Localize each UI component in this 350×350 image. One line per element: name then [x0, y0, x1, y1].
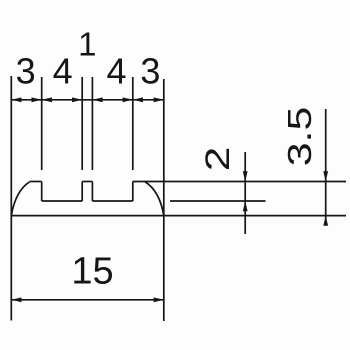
arrowhead dim4a right, pointing right [72, 97, 82, 102]
arrowhead dim2 bottom, pointing up [243, 201, 248, 211]
profile bottom + right extension line [11, 215, 346, 217]
extension line 4 (x=92.4) [91, 77, 93, 170]
profile top surface right segment + right extension line [133, 181, 346, 183]
extension line 5 (x=132.8) [132, 77, 134, 170]
arrowhead dim15 left [11, 297, 21, 302]
arrowhead dim3b right, pointing right [154, 97, 164, 102]
arrowhead dim15 right [154, 297, 164, 302]
svg-text:4: 4 [106, 50, 126, 91]
profile top surface left segment [29, 181, 41, 183]
right rounded corner [145, 182, 164, 216]
svg-text:3: 3 [140, 50, 160, 91]
svg-text:15: 15 [71, 251, 113, 293]
arrowhead dim3b left, pointing left [133, 97, 143, 102]
profile tooth top [82, 181, 92, 183]
left rounded corner [11, 182, 29, 216]
svg-text:2: 2 [199, 147, 237, 172]
arrowhead dim4b left, pointing left [92, 97, 102, 102]
extension line left (x=11.3) [10, 76, 12, 321]
dimension line 3.5 (vertical) [325, 109, 327, 226]
arrowhead dim3.5 top, pointing down [323, 171, 328, 181]
slot 2 bottom [92, 200, 132, 202]
top dimension line [11, 99, 164, 101]
svg-text:3: 3 [16, 50, 36, 91]
dimension line 2 (vertical) [244, 152, 246, 234]
slot 2 left wall [91, 182, 93, 202]
arrowhead dim4a left, pointing left [42, 97, 52, 102]
extension line right (x=163.8) [163, 79, 165, 321]
slot 2 right wall [132, 182, 134, 202]
arrowhead dim2 top, pointing down [243, 171, 248, 181]
svg-text:3.5: 3.5 [282, 107, 319, 167]
extension line 3 (x=82.2) [81, 77, 83, 170]
extension line 2 (x=41.7) [41, 77, 43, 170]
svg-text:4: 4 [53, 50, 73, 91]
arrowhead dim3 right, pointing right [32, 97, 42, 102]
arrowhead dim4b right, pointing right [123, 97, 133, 102]
slot 1 left wall [41, 182, 43, 202]
arrowhead dim3.5 bottom, pointing up [323, 216, 328, 226]
slot bottom extension line to right [170, 200, 266, 202]
bottom dimension line (15) [11, 299, 164, 301]
slot 1 bottom [42, 200, 82, 202]
slot 1 right wall [81, 182, 83, 202]
svg-text:1: 1 [78, 26, 96, 63]
arrowhead dim3 left, pointing left [11, 97, 21, 102]
